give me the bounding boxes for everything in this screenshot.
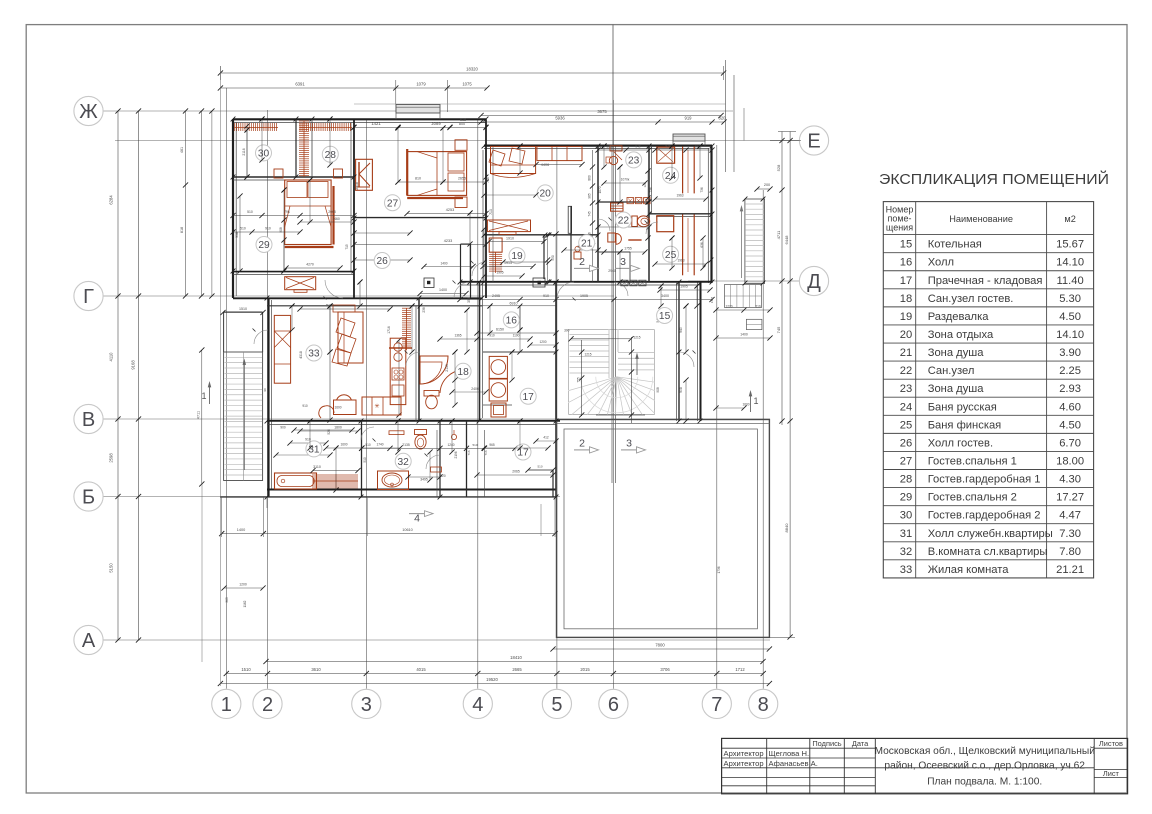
svg-text:Зона отдыха: Зона отдыха [928, 329, 994, 341]
svg-text:4015: 4015 [416, 667, 426, 672]
section mark 1 east [749, 390, 759, 412]
svg-text:716: 716 [484, 450, 488, 455]
svg-text:19: 19 [900, 311, 912, 323]
svg-text:2665: 2665 [512, 667, 522, 672]
svg-text:1716: 1716 [387, 326, 391, 334]
dim 200 east [754, 183, 772, 192]
svg-text:18410: 18410 [510, 655, 522, 660]
svg-text:4: 4 [414, 513, 420, 525]
svg-text:Холл гостев.: Холл гостев. [928, 437, 993, 449]
svg-text:2460: 2460 [332, 217, 340, 221]
svg-text:1215: 1215 [633, 336, 640, 340]
room number 21 [579, 235, 595, 251]
svg-text:1070: 1070 [598, 186, 602, 193]
svg-text:район, Осеевский с.о., дер.Орл: район, Осеевский с.о., дер.Орловка, уч.6… [884, 760, 1085, 771]
svg-text:31: 31 [900, 528, 912, 540]
section mark 3 upper [615, 256, 640, 272]
svg-text:Холл: Холл [928, 257, 954, 269]
axis line Zh [101, 110, 733, 112]
sofa room20 [489, 146, 536, 177]
window bay north2 [673, 134, 705, 146]
title block grid [722, 738, 1128, 793]
exterior wall west upper [233, 119, 236, 298]
svg-text:3400: 3400 [661, 294, 669, 298]
svg-text:1400: 1400 [740, 333, 748, 337]
extra dims rooms17/18 [452, 307, 550, 450]
svg-text:Афанасьев А.: Афанасьев А. [769, 759, 818, 768]
svg-text:Прачечная - кладовая: Прачечная - кладовая [928, 275, 1043, 287]
tv table room20 [487, 220, 530, 234]
axis circle 6 [599, 688, 628, 719]
table row 30 [900, 510, 1081, 522]
svg-text:120: 120 [440, 474, 446, 478]
svg-text:2400: 2400 [471, 387, 479, 391]
svg-text:24: 24 [665, 171, 677, 182]
svg-text:1600: 1600 [334, 406, 341, 410]
svg-text:938: 938 [235, 232, 239, 238]
axis line G [101, 295, 614, 297]
bench room25 [657, 215, 694, 276]
table row 27 [900, 455, 1084, 467]
terrace outer wall [557, 420, 770, 638]
table row 28 [900, 474, 1081, 486]
shelf room32 [389, 430, 457, 472]
svg-text:818: 818 [180, 227, 184, 233]
east exterior staircase [745, 199, 765, 283]
top dimension 18320 [218, 66, 726, 80]
svg-text:715: 715 [345, 244, 349, 250]
table row 33 [900, 564, 1084, 576]
svg-text:Наименование: Наименование [949, 214, 1013, 224]
svg-text:2135: 2135 [402, 443, 410, 447]
svg-text:910: 910 [265, 227, 271, 231]
wall B-axis south [220, 490, 557, 498]
NE extension verticals [726, 60, 745, 172]
svg-text:26: 26 [900, 437, 912, 449]
wall x680 boiler [677, 282, 680, 421]
svg-text:908: 908 [679, 387, 683, 393]
left inner dim verticals [180, 108, 215, 486]
svg-text:19520: 19520 [486, 677, 498, 682]
svg-text:1400: 1400 [439, 288, 447, 292]
svg-text:7.80: 7.80 [1059, 546, 1081, 558]
svg-text:8840: 8840 [784, 523, 789, 533]
svg-text:1755: 1755 [624, 247, 632, 251]
svg-text:3610: 3610 [311, 667, 321, 672]
stair dim verticals [564, 329, 641, 424]
sofa room33 [332, 305, 363, 366]
extra dims hall16/15 [487, 283, 699, 423]
shelf hatch room33 kitchen [402, 308, 411, 350]
svg-text:16: 16 [506, 316, 518, 327]
title block project text [874, 745, 1094, 788]
svg-text:6448: 6448 [784, 235, 789, 245]
svg-text:120: 120 [643, 182, 647, 187]
svg-text:1740: 1740 [376, 443, 383, 447]
svg-text:ЭКСПЛИКАЦИЯ ПОМЕЩЕНИЙ: ЭКСПЛИКАЦИЯ ПОМЕЩЕНИЙ [879, 170, 1109, 188]
table title [879, 170, 1109, 188]
wall 30/28 vs 29 [233, 177, 354, 180]
svg-text:✳: ✳ [374, 403, 379, 410]
svg-text:27: 27 [900, 455, 912, 467]
table row 20 [900, 329, 1084, 341]
svg-text:18: 18 [457, 367, 469, 378]
svg-text:3: 3 [626, 438, 632, 450]
toilet room32 [415, 430, 427, 450]
svg-text:28: 28 [900, 474, 912, 486]
svg-text:8: 8 [758, 694, 769, 716]
svg-text:1800: 1800 [334, 426, 342, 430]
svg-text:510: 510 [247, 210, 253, 214]
svg-text:Листов: Листов [1099, 739, 1123, 748]
svg-text:2495: 2495 [492, 294, 500, 298]
svg-text:300: 300 [564, 329, 570, 333]
svg-text:1400: 1400 [237, 528, 245, 532]
svg-text:716: 716 [467, 450, 471, 455]
svg-text:Е: Е [807, 131, 820, 153]
table row 32 [900, 546, 1081, 558]
section mark 4 [409, 511, 433, 525]
svg-text:910: 910 [302, 404, 308, 408]
svg-text:528: 528 [776, 164, 781, 171]
spiral stair arrow [635, 353, 639, 376]
svg-text:Гостев.гардеробная 1: Гостев.гардеробная 1 [928, 474, 1041, 486]
extra dims room20/19 [481, 143, 551, 284]
fixtures room22 lower [608, 233, 642, 244]
svg-text:Д: Д [807, 271, 821, 293]
svg-text:3.90: 3.90 [1059, 347, 1081, 359]
wall x556 [555, 282, 557, 497]
title block sheet labels [1099, 739, 1123, 778]
bottom dimension itemized [224, 667, 766, 676]
shower arc room17 [440, 370, 463, 393]
section mark 3 lower [621, 438, 646, 454]
svg-text:14.10: 14.10 [1056, 329, 1084, 341]
section line vertical x614 [612, 25, 616, 483]
staircase west block [224, 352, 263, 481]
svg-text:2196: 2196 [454, 451, 458, 458]
svg-text:510: 510 [472, 443, 477, 447]
shower room23 [610, 146, 622, 160]
svg-text:Г: Г [83, 286, 94, 308]
svg-text:3: 3 [620, 256, 626, 268]
svg-text:1963: 1963 [676, 194, 683, 198]
svg-text:1905: 1905 [680, 285, 688, 289]
axis line A [101, 639, 770, 641]
wall G-axis [233, 298, 482, 306]
svg-text:6.70: 6.70 [1059, 437, 1081, 449]
svg-text:10610: 10610 [402, 528, 413, 532]
axis circle В [74, 404, 103, 433]
svg-text:2015: 2015 [580, 667, 590, 672]
upper gray line y104 [354, 103, 726, 105]
partition room21/19 [533, 206, 571, 287]
svg-text:2918: 2918 [355, 182, 359, 190]
svg-text:23: 23 [900, 383, 912, 395]
svg-text:1632: 1632 [606, 145, 614, 149]
extension line x220 [219, 66, 221, 686]
spiral staircase [557, 330, 678, 439]
svg-text:Лист: Лист [1103, 769, 1120, 778]
svg-text:1200: 1200 [539, 340, 546, 344]
wall D-axis interior [460, 282, 712, 285]
bedside tables room27 [455, 140, 467, 208]
sink room22 [611, 203, 624, 211]
svg-text:9168: 9168 [131, 360, 136, 370]
svg-text:5: 5 [551, 694, 562, 716]
svg-text:Зона душа: Зона душа [928, 347, 985, 359]
interior dims cluster A [230, 123, 488, 302]
svg-text:1510: 1510 [241, 667, 251, 672]
svg-text:23: 23 [628, 156, 640, 167]
section mark 2 upper [574, 256, 599, 272]
svg-text:1200: 1200 [239, 583, 247, 587]
svg-text:755: 755 [577, 377, 581, 383]
axis line V [101, 418, 770, 420]
dim column room20 east [588, 150, 596, 282]
axis circle 2 [253, 688, 282, 719]
assorted dim ticks [231, 117, 766, 500]
washbasin room32 [378, 471, 409, 490]
partition 16/15 area x520 [519, 306, 521, 330]
cabinet room19 [489, 238, 502, 252]
svg-text:29: 29 [900, 492, 912, 504]
svg-text:900: 900 [280, 426, 286, 430]
partition room22 lower [598, 252, 630, 282]
door arcs [254, 219, 694, 469]
axis circle 7 [702, 688, 731, 719]
svg-text:1365: 1365 [454, 334, 461, 338]
wardrobe room33 west [274, 315, 290, 383]
svg-text:План подвала. М. 1:100.: План подвала. М. 1:100. [927, 777, 1042, 788]
top dimension 3675 [478, 109, 723, 118]
partition 28/30 [296, 119, 312, 177]
door jamb marks [253, 218, 696, 457]
exterior wall north east-block [484, 146, 712, 149]
axis circle 8 [749, 688, 778, 719]
svg-text:1905: 1905 [580, 294, 588, 298]
svg-text:Щеглова Н.: Щеглова Н. [769, 749, 810, 758]
svg-text:18320: 18320 [466, 67, 478, 72]
shelf unit room20 [537, 146, 582, 160]
wardrobe K room26 [356, 159, 373, 190]
svg-text:510: 510 [365, 443, 371, 447]
svg-text:4711: 4711 [197, 411, 201, 419]
svg-text:4.47: 4.47 [1059, 510, 1081, 522]
kitchen bar room33 [327, 303, 412, 422]
wall V-axis [267, 421, 560, 425]
svg-text:26: 26 [377, 256, 389, 267]
room number 25 [663, 246, 679, 262]
radiator grille east1 [725, 285, 762, 308]
svg-text:1910: 1910 [506, 237, 514, 241]
svg-text:2598: 2598 [109, 453, 114, 463]
interior dims cluster B room20/19 [480, 162, 600, 285]
staircase west arrow [243, 359, 247, 471]
svg-text:796: 796 [284, 210, 290, 214]
interior dims cluster G room17/16 lower [454, 435, 559, 477]
svg-text:461: 461 [180, 147, 184, 153]
wardrobe hatch room30 [235, 123, 279, 131]
svg-text:919: 919 [685, 116, 693, 121]
svg-text:860: 860 [588, 175, 592, 181]
room number 19 [509, 248, 525, 264]
svg-text:Архитектор: Архитектор [724, 749, 764, 758]
svg-text:3495: 3495 [420, 478, 428, 482]
exterior wall east mid block [698, 281, 701, 421]
svg-text:4711: 4711 [776, 230, 781, 239]
svg-text:22: 22 [618, 216, 630, 227]
svg-text:745: 745 [776, 326, 781, 333]
stair dims [220, 307, 267, 607]
svg-text:786: 786 [486, 177, 490, 183]
svg-text:6284: 6284 [109, 195, 114, 205]
svg-text:1079: 1079 [416, 82, 426, 87]
svg-text:16: 16 [900, 257, 912, 269]
svg-text:2655: 2655 [458, 177, 466, 181]
table row 23 [900, 383, 1081, 395]
svg-text:940: 940 [679, 327, 683, 333]
svg-text:Баня финская: Баня финская [928, 419, 1002, 431]
axis line D [688, 280, 801, 282]
svg-text:22: 22 [900, 365, 912, 377]
wall 27 vs 26 [354, 217, 486, 219]
svg-text:6391: 6391 [295, 82, 305, 87]
svg-text:2: 2 [579, 256, 585, 268]
svg-text:11.40: 11.40 [1057, 275, 1084, 287]
room number 16 [503, 312, 519, 328]
terrace top double [557, 415, 770, 424]
wall 32/17 partition [437, 421, 440, 497]
svg-text:25: 25 [900, 419, 912, 431]
svg-text:Жилая комната: Жилая комната [928, 564, 1010, 576]
table row 25 [900, 419, 1081, 431]
svg-text:908: 908 [656, 387, 660, 393]
svg-text:4.30: 4.30 [1059, 474, 1081, 486]
duct boxes D-wall [424, 278, 541, 288]
svg-text:949: 949 [635, 145, 641, 149]
room number 15 [657, 308, 673, 324]
svg-text:910: 910 [543, 294, 549, 298]
svg-text:2089: 2089 [431, 121, 441, 126]
table row 24 [900, 401, 1081, 413]
table row 21 [900, 347, 1081, 359]
extra dims room30/29 [244, 116, 332, 273]
room number 17 [515, 444, 531, 460]
axis circle Г [74, 281, 103, 310]
svg-text:510: 510 [537, 465, 542, 469]
svg-text:В.комната сл.квартиры: В.комната сл.квартиры [928, 546, 1048, 558]
bed room29 [285, 180, 334, 247]
wall segment 17 y405 [483, 404, 512, 406]
svg-text:910: 910 [489, 334, 495, 338]
table row 16 [900, 257, 1084, 269]
svg-text:3706: 3706 [660, 667, 670, 672]
svg-text:963: 963 [225, 597, 229, 603]
svg-text:Раздевалка: Раздевалка [928, 311, 990, 323]
niche 26/19 [461, 244, 471, 298]
svg-text:3110: 3110 [313, 465, 321, 469]
bottom dimension 19520 [218, 677, 772, 686]
exterior wall west lower [269, 298, 272, 497]
svg-text:Гостев.спальня 2: Гостев.спальня 2 [928, 492, 1017, 504]
svg-text:17: 17 [523, 392, 535, 403]
extension line x202 [202, 484, 267, 662]
svg-text:1600: 1600 [340, 443, 347, 447]
wall x598 vertical [597, 146, 599, 282]
svg-text:1: 1 [201, 391, 206, 401]
svg-text:736: 736 [700, 187, 704, 193]
wall x354 vertical [351, 119, 354, 298]
table row 15 [900, 239, 1084, 251]
svg-text:810: 810 [415, 177, 421, 181]
svg-text:1070к: 1070к [621, 178, 630, 182]
svg-text:20: 20 [900, 329, 912, 341]
svg-text:15: 15 [900, 239, 912, 251]
room number 26 [374, 253, 390, 269]
exterior wall east upper block [708, 146, 711, 283]
svg-text:4110: 4110 [109, 352, 114, 362]
top dimension row2 [218, 80, 490, 112]
svg-text:18.00: 18.00 [1056, 455, 1084, 467]
room number 27 [385, 195, 401, 211]
interior dims cluster H room15 [656, 285, 773, 574]
svg-text:1: 1 [753, 396, 758, 406]
ladder hatch room19 [489, 252, 502, 273]
svg-text:Котельная: Котельная [928, 239, 982, 251]
washer dryer stack room17 [489, 356, 507, 417]
svg-text:4: 4 [472, 694, 483, 716]
top dimension 5936 row [460, 116, 727, 125]
svg-text:1240: 1240 [447, 443, 454, 447]
svg-text:1215: 1215 [584, 353, 591, 357]
section mark 1 west [201, 381, 211, 404]
table row 17 [900, 275, 1084, 287]
bed room27 [407, 149, 466, 198]
right dimension verticals [770, 132, 801, 640]
svg-text:4253: 4253 [446, 208, 454, 212]
svg-text:Сан.узел: Сан.узел [928, 365, 975, 377]
room number 28 [322, 146, 338, 162]
interior dims cluster F rooms31/32 [219, 426, 557, 538]
svg-text:Ж: Ж [79, 101, 98, 123]
section mark 2 lower [574, 438, 599, 454]
svg-text:2.25: 2.25 [1059, 365, 1081, 377]
room number 20 [537, 185, 553, 201]
svg-text:1963: 1963 [677, 259, 684, 263]
svg-text:1736: 1736 [717, 566, 721, 573]
toilet room18 [424, 391, 439, 409]
svg-text:м2: м2 [1064, 214, 1075, 224]
svg-text:щения: щения [886, 223, 913, 233]
svg-text:Холл служебн.квартиры: Холл служебн.квартиры [928, 528, 1053, 540]
svg-text:1220: 1220 [725, 305, 732, 309]
svg-text:519: 519 [755, 305, 761, 309]
wall segment room18/17 y352 [483, 351, 556, 353]
room number 24 [663, 167, 679, 183]
interior dims cluster E room33 [273, 304, 402, 458]
svg-text:965: 965 [489, 443, 495, 447]
svg-text:30: 30 [900, 510, 912, 522]
svg-text:15.67: 15.67 [1056, 239, 1084, 251]
extra ticks row2 [245, 117, 703, 451]
svg-text:412: 412 [543, 435, 549, 439]
room number 30 [256, 145, 272, 161]
svg-text:Сан.узел гостев.: Сан.узел гостев. [928, 293, 1014, 305]
svg-text:Гостев.гардеробная 2: Гостев.гардеробная 2 [928, 510, 1041, 522]
room number 29 [256, 237, 272, 253]
bench room24 [657, 147, 694, 194]
